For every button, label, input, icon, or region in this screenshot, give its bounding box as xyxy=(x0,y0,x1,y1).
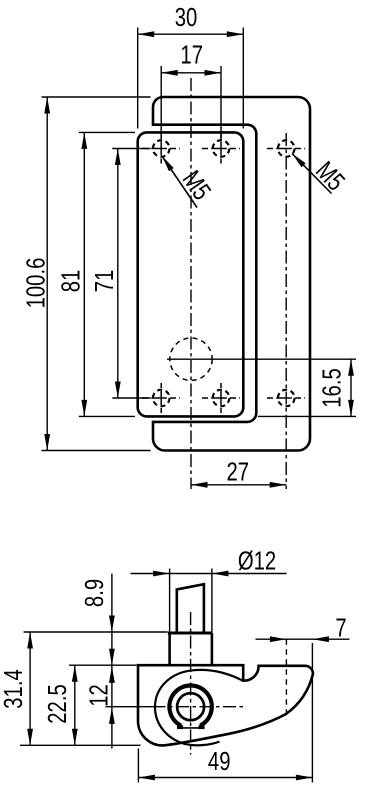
svg-text:Ø12: Ø12 xyxy=(238,546,276,575)
svg-text:7: 7 xyxy=(335,613,346,642)
svg-text:31.4: 31.4 xyxy=(0,669,28,708)
svg-text:71: 71 xyxy=(89,270,118,293)
svg-text:M5: M5 xyxy=(310,156,350,196)
svg-text:16.5: 16.5 xyxy=(317,368,346,407)
svg-text:17: 17 xyxy=(180,40,203,69)
svg-text:27: 27 xyxy=(227,457,250,486)
svg-text:8.9: 8.9 xyxy=(80,579,109,607)
svg-text:12: 12 xyxy=(84,684,113,707)
svg-text:22.5: 22.5 xyxy=(43,684,72,723)
svg-text:30: 30 xyxy=(175,2,198,31)
svg-text:100.6: 100.6 xyxy=(21,258,50,309)
svg-text:49: 49 xyxy=(208,746,231,775)
svg-text:81: 81 xyxy=(56,270,85,293)
